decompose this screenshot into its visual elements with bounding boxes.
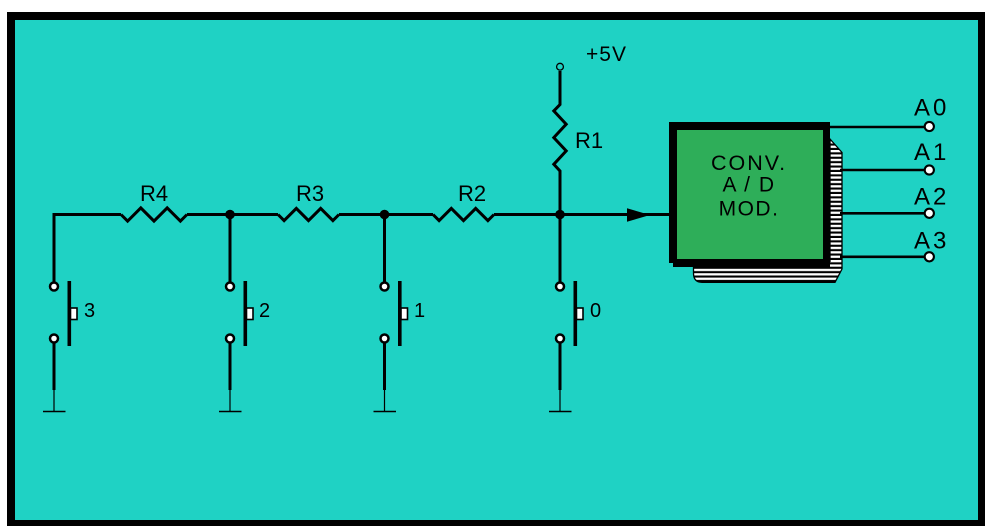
- switch S0 top terminal: [556, 283, 564, 291]
- svg-text:A2: A2: [914, 184, 949, 211]
- +5V terminal circle: [557, 63, 564, 70]
- switch S2 button cap: [247, 308, 254, 320]
- resistor R1 (vertical): [554, 71, 566, 214]
- pushbutton switch S2: [219, 281, 270, 412]
- switch S1 button cap: [401, 308, 408, 320]
- switch S1 bottom terminal: [381, 335, 389, 343]
- svg-text:A0: A0: [914, 95, 949, 122]
- switch S3 actuator bar: [68, 281, 72, 346]
- svg-text:CONV.: CONV.: [711, 151, 787, 175]
- switch S2 top terminal: [226, 283, 234, 291]
- resistor R4: [121, 208, 187, 221]
- svg-text:2: 2: [259, 300, 270, 322]
- wire switch S2 to ground: [229, 344, 232, 391]
- module stacked pages (hatched): [694, 139, 843, 282]
- switch S1 actuator bar: [398, 281, 402, 346]
- resistor R3: [278, 208, 339, 220]
- node A (junction dot between R4 and R3): [225, 210, 235, 220]
- wire bus segment R3-R2: [339, 213, 433, 216]
- switch S3 bottom terminal: [50, 335, 58, 343]
- wire output A3: [840, 255, 924, 258]
- switch S0 bottom terminal: [556, 335, 564, 343]
- svg-text:1: 1: [414, 300, 425, 322]
- switch S1 top terminal: [381, 283, 389, 291]
- module shadow box: [673, 126, 830, 267]
- wire output A1: [840, 169, 924, 172]
- svg-text:R4: R4: [140, 181, 168, 206]
- svg-text:R1: R1: [575, 128, 603, 153]
- switch S2 bottom terminal: [226, 335, 234, 343]
- switch S3 button cap: [71, 308, 78, 320]
- wire bus segment R4-R3: [187, 213, 278, 216]
- wire: left drop to switch 3: [53, 213, 56, 282]
- wire switch S3 to ground: [53, 344, 56, 391]
- svg-text:A1: A1: [914, 139, 949, 166]
- pushbutton switch S1: [374, 281, 426, 412]
- ground lead S2: [229, 390, 231, 412]
- ground S3: [43, 411, 66, 413]
- switch S0 actuator bar: [573, 281, 577, 346]
- ground S2: [219, 411, 242, 413]
- svg-text:A3: A3: [914, 228, 949, 255]
- terminal A2: [925, 209, 934, 218]
- svg-text:3: 3: [84, 300, 95, 322]
- switch S3 top terminal: [50, 283, 58, 291]
- svg-text:MOD.: MOD.: [719, 198, 780, 221]
- switch S0 button cap: [577, 308, 584, 320]
- ground S0: [549, 411, 572, 413]
- wire switch S0 to ground: [559, 344, 562, 391]
- arrow into module: [627, 208, 650, 222]
- resistor R2: [433, 208, 494, 220]
- wire: drop to switch 0: [559, 214, 562, 282]
- pushbutton switch S0: [549, 281, 601, 412]
- svg-text:+5V: +5V: [586, 43, 627, 66]
- svg-text:R2: R2: [458, 181, 486, 206]
- svg-text:0: 0: [590, 300, 601, 322]
- ground lead S3: [53, 390, 55, 412]
- ground lead S0: [559, 390, 561, 412]
- module green face: [677, 130, 823, 259]
- svg-text:A / D: A / D: [722, 174, 775, 197]
- switch S2 actuator bar: [244, 281, 248, 346]
- terminal A1: [925, 165, 934, 174]
- wire bus segment to module: [494, 213, 669, 216]
- wire output A2: [840, 212, 924, 215]
- node B (junction dot between R3 and R2): [380, 210, 390, 220]
- wire: drop to switch 1: [383, 214, 386, 282]
- wire: drop to switch 2: [229, 214, 232, 282]
- ground S1: [374, 411, 397, 413]
- module main box: [669, 122, 830, 263]
- wire output A0: [829, 126, 924, 129]
- wire bus left segment: [54, 213, 121, 216]
- ground lead S1: [384, 390, 386, 412]
- terminal A0: [925, 122, 934, 131]
- node C (junction dot at R2/R1): [555, 210, 565, 220]
- terminal A3: [925, 252, 934, 261]
- svg-text:R3: R3: [296, 181, 324, 206]
- wire switch S1 to ground: [383, 344, 386, 391]
- pushbutton switch S3: [43, 281, 95, 412]
